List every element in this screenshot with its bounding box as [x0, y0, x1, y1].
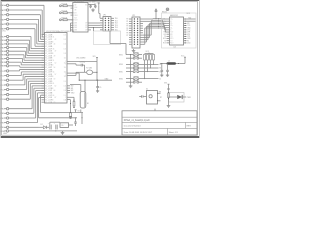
U1 left pin stub row 26: [42, 92, 45, 94]
sheet background: [0, 0, 200, 138]
U1 left pin stub row 15: [42, 66, 45, 68]
svg-text:3V3: 3V3: [93, 56, 96, 58]
connector pin PA5 circle: [6, 28, 8, 30]
connector pin PC1 stub: [4, 75, 6, 77]
U3 pin R2I right stub: [184, 33, 187, 35]
JP2 row 9 right stub: [140, 36, 143, 38]
svg-text:TD2: TD2: [115, 23, 118, 25]
U1 right pin GCLK0 stub: [67, 61, 70, 63]
svg-text:P4: P4: [126, 28, 128, 30]
resistor R4 body: [73, 102, 75, 107]
connector pin PC4 circle: [6, 88, 8, 90]
U2 left pin stub: [71, 29, 74, 31]
U1 right pin GCLK1 stub: [67, 63, 70, 65]
osc module circle: [149, 95, 152, 98]
U1 right pin TDO stub: [67, 96, 70, 98]
capacitor C1 wire down: [90, 7, 92, 8]
JP1 row 1 left stub: [100, 17, 103, 19]
JP2 row 7 left stub: [129, 32, 132, 34]
svg-text:V+: V+: [164, 21, 166, 23]
JP1 row 2 left stub: [100, 20, 103, 22]
ground under LED: [168, 104, 170, 106]
resistor R3 wire out: [67, 19, 73, 21]
U3 right pin dot row 10: [185, 38, 186, 39]
svg-text:S4: S4: [159, 64, 161, 66]
wire from pin PC3 to U1: [9, 84, 25, 86]
capacitor C9 plates: [155, 9, 158, 11]
svg-text:C2+: C2+: [170, 25, 173, 27]
pullup resistor RN1.3 bottom wire: [150, 60, 152, 68]
pullup resistor RN1.4 body: [153, 54, 155, 60]
capacitor C11 wire: [167, 64, 169, 71]
power rail dot a: [70, 112, 71, 113]
osc module top dot: [157, 93, 158, 94]
ground under JP2: [133, 49, 135, 51]
connector pin GND stub: [4, 130, 6, 132]
osc module cap wire: [143, 96, 147, 98]
wire XTO: [70, 74, 76, 76]
connector pin PB2 stub: [4, 43, 6, 45]
cap marks on LED rail: [167, 87, 169, 89]
U1 left pin stub row 18: [42, 73, 45, 75]
title block outer box: [122, 111, 197, 135]
svg-text:1: 1: [65, 99, 66, 101]
U3 pin C2- left stub: [167, 27, 170, 29]
power right drop: [81, 113, 83, 125]
wire U1 row28 to power rail: [39, 97, 45, 99]
connector pin PB6 circle: [6, 57, 8, 59]
connector pin PC1 circle: [6, 74, 8, 76]
wire U1 row27 to power rail: [41, 94, 45, 96]
U3 pin R2O left stub: [167, 38, 170, 40]
U2 right pin stub: [88, 24, 91, 26]
power 5V tick: [75, 109, 77, 111]
svg-text:41: 41: [53, 37, 55, 39]
U1 left pin stub row 1: [42, 34, 45, 36]
wire U3 TXD to edge: [187, 18, 196, 20]
faint group box around U3: [162, 13, 197, 48]
resistor R3 wire in: [61, 19, 63, 21]
svg-text:RTS: RTS: [187, 34, 190, 36]
JP2 row 6 right stub: [140, 30, 143, 32]
wire XTI: [70, 72, 79, 74]
osc rail top tick: [96, 57, 98, 59]
connector pin PC3 circle: [6, 84, 8, 86]
wire from pin PA1 to U1: [9, 9, 42, 11]
pullup wire to button 1: [139, 78, 145, 80]
ground under C1 C2: [92, 8, 94, 10]
svg-text:V+: V+: [170, 21, 172, 23]
JP2 row 4 left stub: [129, 25, 132, 27]
connector pin PE4 stub: [4, 126, 6, 128]
osc rail vertical: [96, 58, 98, 81]
connector pin PE3 stub: [4, 122, 6, 124]
JP1 row 2 right stub: [111, 20, 114, 22]
button SW3 actuator bar: [134, 62, 139, 64]
mid rail dot: [70, 117, 71, 118]
power filter wire right: [176, 63, 185, 65]
button SW7 rail dot: [130, 82, 131, 83]
U1 left pin stub row 21: [42, 80, 45, 82]
U3 pin V- right stub: [184, 29, 187, 31]
wire run 7 to U3: [159, 27, 166, 29]
JP1 row 5 right stub: [111, 27, 114, 29]
connector pin PB5 circle: [6, 54, 8, 56]
svg-text:CF: CF: [85, 30, 87, 32]
svg-text:3V3: 3V3: [164, 82, 167, 84]
diode D2 wire out: [46, 126, 49, 128]
connector pin PB0 stub: [4, 36, 6, 38]
svg-text:56: 56: [53, 72, 55, 74]
svg-text:1: 1: [65, 75, 66, 77]
gnd net rail: [79, 79, 112, 81]
button SW5 rail dot: [130, 71, 131, 72]
button SW6 contact circles: [133, 78, 135, 80]
capacitor C1 wire left: [88, 4, 91, 6]
U3 pin C2- right stub: [184, 27, 187, 29]
JP1 row 6 left stub: [100, 29, 103, 31]
wire U2 to JP1 row3: [91, 22, 100, 24]
svg-text:C4 22p: C4 22p: [80, 61, 86, 63]
U1 left pin stub row 19: [42, 76, 45, 78]
JP2 row 4 pin dots: [134, 25, 135, 26]
resistor R2 wire in: [61, 12, 63, 14]
header JP1 body: [103, 17, 111, 32]
connector pin PD1 circle: [6, 98, 8, 100]
wire from pin PC0 to U1: [9, 70, 20, 72]
connector pin PC0 stub: [4, 70, 6, 72]
JP2 row 8 right stub: [140, 34, 143, 36]
capacitor C7 plates: [55, 125, 57, 130]
schematic sheet border: [2, 1, 198, 135]
svg-text:R7: R7: [160, 97, 162, 99]
run 5 junction dot: [158, 24, 159, 25]
svg-text:59: 59: [54, 79, 56, 81]
wire from pin PB5 to U1: [9, 54, 24, 56]
U3 pin C1- right stub: [184, 22, 187, 24]
svg-text:108: 108: [63, 53, 66, 55]
svg-text:C2+: C2+: [163, 25, 166, 27]
capacitor C2 plates: [94, 5, 97, 7]
crystal Y1 left lead: [85, 71, 87, 73]
wire TDO right: [70, 96, 74, 98]
U1 left pin stub row 16: [42, 69, 45, 71]
wire from pin PB7 to U1: [9, 61, 21, 63]
svg-text:52: 52: [55, 62, 57, 64]
resistor R3 pin circle: [60, 19, 62, 21]
JP2 row 5 right stub: [140, 27, 143, 29]
U3 right pin dot row 5: [185, 27, 186, 28]
pullup wire to button 4: [139, 63, 154, 65]
power filter dot 1: [161, 63, 162, 64]
svg-text:104: 104: [63, 44, 66, 46]
button SW5 actuator bar: [134, 69, 139, 71]
svg-text:1: 1: [65, 97, 66, 99]
JP1 row 4 left stub: [100, 24, 103, 26]
U1 left pin stub row 11: [42, 57, 45, 59]
svg-text:120: 120: [63, 81, 66, 83]
svg-text:69: 69: [54, 102, 56, 104]
svg-text:CF: CF: [85, 25, 87, 27]
U1 left pin stub row 6: [42, 45, 45, 47]
battery BT1 body: [80, 92, 86, 109]
JP1 row 1 pin dots: [105, 18, 106, 19]
JP2 row 5 pin dots: [134, 28, 135, 29]
connector pin PE1 circle: [6, 112, 8, 114]
U3 right pin dot row 4: [185, 25, 186, 26]
U3 right pin dot row 7: [185, 32, 186, 33]
JP2 row 6 pin dots: [134, 30, 135, 31]
connector pin PA4 stub: [4, 23, 6, 25]
svg-text:100: 100: [63, 34, 66, 36]
gnd rail dot 2: [96, 80, 97, 81]
connector P1 circle: [166, 8, 169, 11]
connector pin PA1 circle: [6, 9, 8, 11]
button SW7 actuator bar: [134, 79, 139, 81]
resistor R1 pin circle: [60, 5, 62, 7]
JP1 left rail: [99, 13, 101, 18]
connector pin PC2 stub: [4, 79, 6, 81]
outer window edge top: [0, 0, 200, 2]
connector pin PB5 stub: [4, 54, 6, 56]
U3 pin T2I left stub: [167, 35, 170, 37]
U3 pin C1+ left stub: [167, 18, 170, 20]
connector pin PC3 stub: [4, 84, 6, 86]
wire from pin PB6 to U1: [9, 58, 23, 60]
svg-text:66: 66: [53, 95, 55, 97]
title block sheet divider: [167, 128, 169, 135]
svg-text:44: 44: [54, 44, 56, 46]
battery BT1 right wire: [84, 80, 86, 91]
battery BT1 left wire: [80, 84, 82, 91]
wire from pin GND straight: [9, 130, 48, 132]
capacitor C5 wire2: [97, 88, 99, 90]
connector pin PB8 stub: [4, 65, 6, 67]
svg-text:D2: D2: [41, 124, 43, 126]
U3 right pin dot row 3: [185, 23, 186, 24]
svg-text:49: 49: [54, 55, 56, 57]
svg-text:CTS: CTS: [187, 36, 190, 38]
svg-text:64: 64: [54, 90, 56, 92]
osc module bottom dot: [157, 100, 158, 101]
wire from pin PC1 to U1: [9, 75, 21, 77]
connector pin PA1 stub: [4, 9, 6, 11]
U1 right pin M0 stub: [67, 85, 70, 87]
button SW5 wire left: [126, 71, 133, 73]
JP2 row 10 right stub: [140, 39, 143, 41]
wire CCLK down: [69, 99, 72, 101]
capacitor C10 wire: [161, 64, 163, 71]
pullup resistor RN1.4 bottom wire: [153, 60, 155, 64]
connector pin PA5 stub: [4, 28, 6, 30]
button SW5 contact circles: [133, 71, 135, 73]
connector pin PB1 stub: [4, 39, 6, 41]
connector pin PB8 circle: [6, 65, 8, 67]
svg-text:GND: GND: [3, 133, 8, 135]
crystal Y1 right lead: [93, 71, 97, 73]
JP2 row 3 left stub: [129, 23, 132, 25]
connector pin PC4 stub: [4, 89, 6, 91]
svg-text:SW3: SW3: [119, 64, 123, 66]
connector pin PD0 circle: [6, 93, 8, 95]
capacitor C5 wire: [97, 80, 99, 86]
JP1 row 3 right stub: [111, 22, 114, 24]
U3 pin V- left stub: [167, 29, 170, 31]
svg-text:Date: 24.08.2009 14:35:52 CET: Date: 24.08.2009 14:35:52 CET: [124, 131, 153, 134]
svg-text:Document Number:: Document Number:: [124, 125, 142, 128]
JP2 row 3 pin dots: [134, 23, 135, 24]
JP2 row 12 right stub: [140, 43, 143, 45]
run 3 junction dot: [158, 21, 159, 22]
osc module cap plates: [141, 95, 143, 98]
resistor R2 pin circle: [60, 12, 62, 14]
U1 left pin stub row 28: [42, 97, 45, 99]
wire from pin PD1 to U1: [9, 98, 31, 100]
U3 right pin dot row 12: [185, 42, 186, 43]
connector pin PE1 stub: [4, 112, 6, 114]
connector pin PE3 circle: [6, 121, 8, 123]
wire from pin PB4 to U1: [9, 50, 26, 52]
pullup resistor RN1.2 body: [147, 54, 149, 60]
battery BT1 right wire dot: [84, 80, 85, 81]
JP2 row 11 right stub: [140, 41, 143, 43]
U2 left pin stub: [71, 14, 74, 16]
button SW6 rail dot: [130, 78, 131, 79]
connector pin PA0 circle: [6, 4, 8, 6]
svg-text:C1+: C1+: [170, 19, 173, 21]
outer window edge right: [199, 0, 201, 138]
capacitor C9 tick: [155, 8, 157, 10]
wire U2 to JP1 row4: [91, 24, 100, 26]
connector pin PD1 stub: [4, 98, 6, 100]
ground under C11: [167, 74, 169, 75]
svg-text:U2 XCF02S: U2 XCF02S: [74, 1, 84, 3]
wire run 2 to U3: [159, 19, 163, 21]
connector pin PB3 stub: [4, 47, 6, 49]
wire LED rail top: [168, 86, 170, 93]
button SW1 contact circles: [133, 54, 135, 56]
jtag junction dot: [70, 103, 71, 104]
wire JP2 row9 up to run: [143, 36, 150, 38]
svg-text:1: 1: [65, 88, 66, 90]
JP2 row 7 right stub: [140, 32, 143, 34]
wire run 3 to U3: [159, 21, 164, 23]
connector pin PB4 circle: [6, 50, 8, 52]
U1 left pin stub row 13: [42, 62, 45, 64]
button SW4 actuator bar: [134, 65, 139, 67]
wire run 6 to U3: [159, 25, 165, 27]
wire from pin PE0 to U1: [9, 108, 32, 110]
button SW2 wire left: [126, 57, 133, 59]
wire from pin PC2 to U1: [9, 79, 23, 81]
button SW7 wire left: [126, 81, 133, 83]
wire R6 to corner: [168, 98, 170, 102]
U1 right pin XTO stub: [67, 74, 70, 76]
power filter dot 2: [178, 63, 179, 64]
svg-text:1117: 1117: [61, 125, 65, 127]
mid rail: [58, 117, 77, 119]
JP2 row 8 left stub: [129, 34, 132, 36]
config PROM U2 body: [73, 3, 88, 33]
wire JP2 row8 up to run: [143, 34, 151, 36]
JP2 row 6 left stub: [129, 30, 132, 32]
wire from pin PE3 to U1: [9, 122, 38, 124]
svg-text:SW6: SW6: [119, 78, 123, 80]
button SW7 contact circles: [133, 81, 135, 83]
JP2 row 4 right stub: [140, 25, 143, 27]
pullup junction dot 4: [153, 64, 154, 65]
osc module right stub 1: [158, 92, 161, 94]
ground power: [62, 131, 64, 133]
capacitor C11 wire2: [167, 71, 169, 73]
connector pin PB0 circle: [6, 35, 8, 37]
wire from pin PD0 to U1: [9, 94, 29, 96]
svg-text:OSC 50MHz: OSC 50MHz: [76, 58, 86, 60]
button SW2 actuator bar: [134, 55, 139, 57]
wire from pin PB1 to U1: [9, 39, 30, 41]
U1 left pin stub row 2: [42, 36, 45, 38]
U3 pin R1O right stub: [184, 42, 187, 44]
wire from pin PA3 to U1: [9, 18, 39, 20]
connector pin PE2 circle: [6, 117, 8, 119]
connector pin PA2 circle: [6, 14, 8, 16]
button SW1 wire left: [126, 54, 133, 56]
resistor R6 body: [168, 93, 170, 98]
power gnd dot: [55, 130, 56, 131]
connector pin PE0 stub: [4, 108, 6, 110]
wire from pin PA5 to U1: [9, 28, 35, 30]
U3 pin T2O right stub: [184, 31, 187, 33]
vcc tick LED: [168, 83, 170, 85]
JP2 row 7 pin dots: [134, 32, 135, 33]
connector pin PC0 circle: [6, 70, 8, 72]
resistor R1 wire in: [61, 5, 63, 7]
U3 pin T1I left stub: [167, 40, 170, 42]
header JP2 body: [132, 17, 140, 48]
aux rail: [70, 83, 81, 85]
wire from pin PB0 to U1: [9, 36, 31, 38]
capacitor C2 wire: [94, 7, 96, 8]
connector pin PE0 circle: [6, 108, 8, 110]
battery BT1 bottom tick: [80, 110, 82, 113]
title block REV divider: [185, 122, 187, 128]
capacitor C4 plates: [80, 64, 82, 67]
run 4 junction dot: [158, 23, 159, 24]
connector pin PB6 stub: [4, 58, 6, 60]
wire run 1 to U3: [159, 18, 162, 20]
U3 pin V+ left stub: [167, 20, 170, 22]
svg-text:REV:: REV:: [187, 126, 192, 128]
FPGA U1 body: [45, 33, 68, 104]
pullup wire to button 2: [139, 71, 148, 73]
U2 right pin stub: [88, 4, 91, 6]
wire LED right: [182, 96, 186, 98]
svg-text:110: 110: [64, 58, 67, 60]
U2 right pin stub: [88, 29, 91, 31]
wire JP2 row11 up to run: [143, 41, 146, 43]
capacitor C8 wire: [75, 123, 77, 126]
JP1 row 6 pin dots: [105, 29, 106, 30]
svg-text:46: 46: [53, 48, 55, 50]
capacitor C6 plates: [49, 125, 51, 130]
connector pin GND circle: [6, 130, 8, 132]
capacitor C1 plates: [89, 5, 92, 7]
JP1 row 3 left stub: [100, 22, 103, 24]
U3 pin C1- left stub: [167, 22, 170, 24]
U1 left pin stub row 29: [42, 99, 45, 101]
capacitor C11 plates: [166, 69, 169, 71]
wire from pin PA4 to U1: [9, 23, 37, 25]
